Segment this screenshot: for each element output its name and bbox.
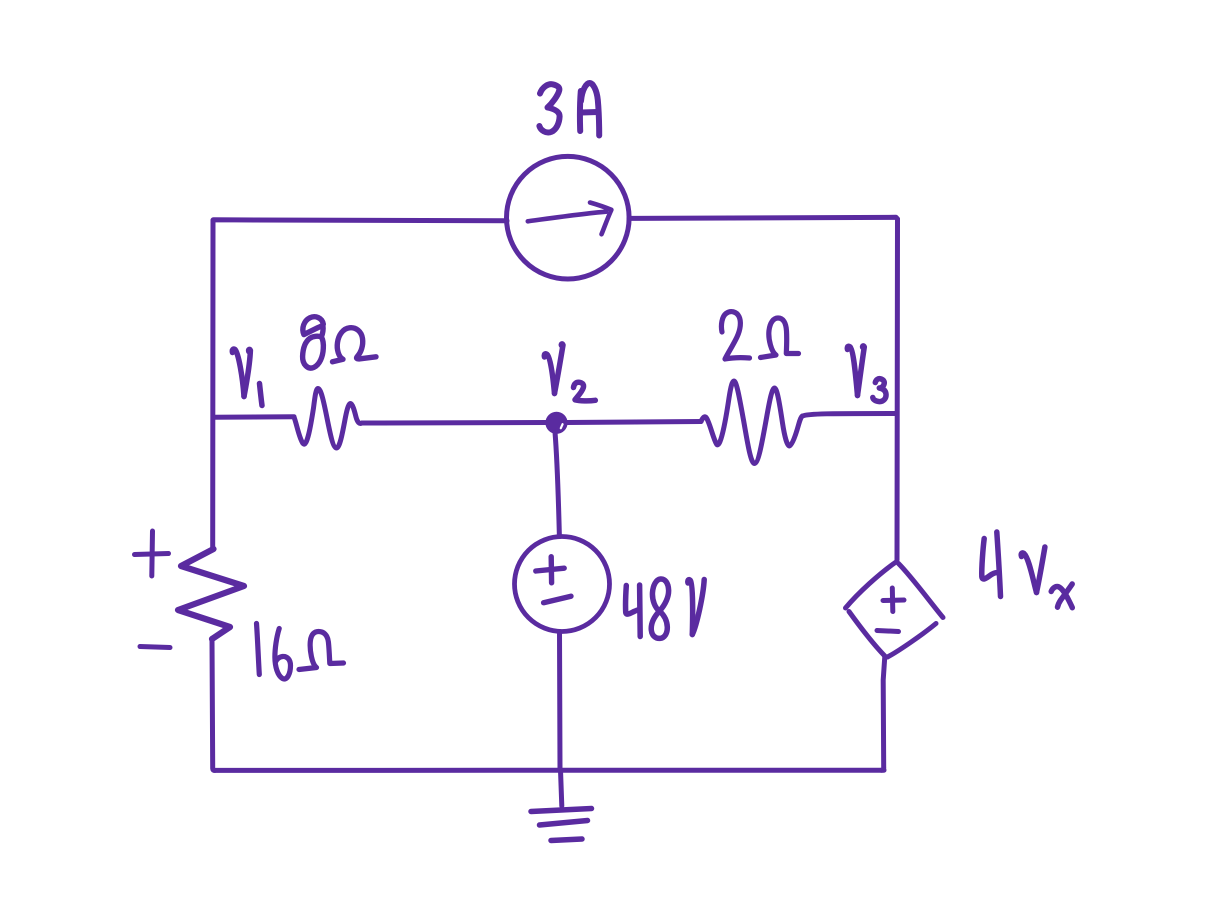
wire left vertical lower (212, 639, 215, 770)
minus under plus in diamond (877, 631, 899, 632)
label V2 (544, 344, 595, 401)
label 48V (626, 579, 705, 638)
ground stub (561, 770, 562, 806)
resistor R 2ohm squiggle (701, 381, 803, 464)
wire top-right (629, 217, 898, 219)
wire bottom (214, 768, 884, 773)
plus in diamond (890, 588, 896, 612)
label V3 (847, 346, 886, 402)
minus sign left (140, 647, 170, 648)
wire 48V to bottom (557, 632, 563, 771)
resistor R 16ohm zigzag (178, 549, 244, 639)
wire top-left (213, 220, 507, 221)
ground line 3 (551, 839, 582, 841)
wire middle-right (node V2 to 2ohm) (567, 422, 701, 423)
wire node V2 down to 48V source (555, 432, 559, 537)
current source I1 (3A) circle (507, 156, 630, 279)
label V1 (232, 349, 262, 405)
wire middle (8ohm to node V2) (362, 420, 548, 426)
ground line 1 (531, 809, 592, 812)
arrow inside current source (528, 212, 606, 222)
node V2 dot (547, 413, 566, 432)
plus inside 48V (549, 557, 555, 583)
dependent source diamond (846, 562, 897, 608)
label 4Vx (982, 532, 1073, 608)
label 3A (539, 83, 599, 136)
wire below diamond (882, 657, 885, 771)
label 16 ohm (257, 624, 344, 679)
label 8 ohm (303, 317, 376, 368)
label 2 ohm (721, 312, 798, 359)
wire right vertical (895, 219, 901, 560)
voltage source 48V circle (515, 537, 610, 632)
wire left vertical upper (210, 220, 215, 548)
ground line 2 (540, 821, 588, 826)
wire middle-left (213, 414, 294, 420)
wire 2ohm to right vertical (803, 414, 897, 417)
resistor R 8ohm squiggle (294, 389, 362, 449)
minus inside 48V (544, 596, 571, 603)
plus sign left (149, 531, 155, 576)
